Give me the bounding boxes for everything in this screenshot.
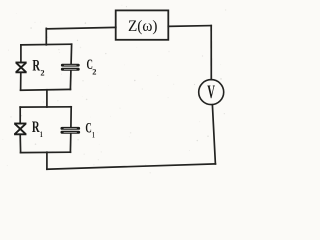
resistor R1 (hourglass symbol) bbox=[15, 124, 26, 135]
capacitor C1 (plates) bbox=[61, 127, 81, 134]
svg-text:C: C bbox=[85, 120, 91, 136]
wire: upper RC group left rail below R2 bbox=[20, 72, 22, 90]
wire: lower RC group top rail bbox=[20, 106, 71, 108]
label R1 bbox=[32, 119, 43, 139]
wire: upper RC group right rail below C2 bbox=[69, 71, 72, 90]
wire: upper RC group left rail above R2 bbox=[20, 45, 22, 62]
svg-text:2: 2 bbox=[40, 67, 44, 77]
wire: lower RC group right rail below C1 bbox=[69, 134, 71, 153]
wire: voltmeter bottom terminal down to bottom-right corner bbox=[212, 105, 215, 164]
svg-text:1: 1 bbox=[92, 130, 95, 140]
label C1 bbox=[85, 120, 94, 139]
wire: Z box right terminal to top-right corner bbox=[168, 25, 211, 28]
impedance box U1 bbox=[116, 10, 169, 39]
svg-text:Z(ω): Z(ω) bbox=[128, 18, 158, 35]
wire: upper RC group bottom rail bbox=[21, 88, 71, 91]
label C2 bbox=[87, 57, 97, 76]
wire: top lead from step corner to Z box left terminal bbox=[46, 27, 116, 29]
svg-text:R: R bbox=[32, 119, 40, 136]
wire: stub from bottom rail up to lower RC group bbox=[46, 152, 48, 169]
wire: lower RC group bottom rail bbox=[21, 151, 71, 153]
resistor R2 (hourglass symbol) bbox=[16, 63, 25, 73]
wire: lower RC group left rail above R1 bbox=[19, 107, 21, 123]
wire: bottom return rail bbox=[47, 164, 216, 169]
wire: lower RC group left rail below R1 bbox=[19, 135, 21, 153]
label R2 bbox=[32, 57, 44, 77]
svg-text:V: V bbox=[207, 82, 215, 103]
wire: upper RC group right rail above C2 bbox=[70, 44, 73, 63]
svg-text:1: 1 bbox=[40, 129, 43, 139]
svg-text:R: R bbox=[32, 57, 40, 74]
wire: lower RC group right rail above C1 bbox=[70, 107, 72, 127]
wire: stub between upper and lower RC groups bbox=[46, 90, 48, 107]
wire: right vertical down to voltmeter top terminal bbox=[210, 26, 212, 80]
capacitor C2 (plates) bbox=[61, 64, 80, 71]
wire: step vertical down to top of upper RC group bbox=[45, 28, 47, 44]
svg-text:2: 2 bbox=[92, 67, 96, 77]
wire: upper RC group top rail bbox=[21, 43, 72, 46]
voltmeter P1 bbox=[199, 80, 224, 105]
